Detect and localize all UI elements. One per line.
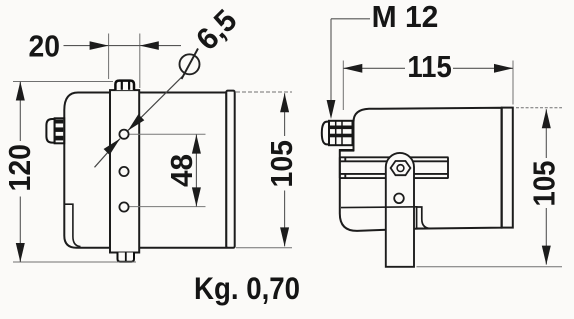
dimension 105 (right view) line	[545, 109, 547, 158]
lamp body (side view)	[340, 108, 502, 231]
cable gland (front view, left side)	[46, 118, 64, 143]
housing seam line	[341, 206, 418, 209]
dimension 115 line	[343, 67, 405, 69]
svg-text:48: 48	[164, 154, 199, 187]
dimension 120 extension lines	[13, 81, 113, 83]
svg-text:120: 120	[2, 144, 37, 192]
svg-text:20: 20	[29, 29, 61, 64]
dimension 115 extension lines	[342, 61, 344, 111]
svg-text:105: 105	[264, 140, 299, 188]
svg-text:Kg. 0,70: Kg. 0,70	[194, 270, 300, 306]
dimension 20 extension lines	[108, 34, 110, 80]
svg-text:115: 115	[407, 49, 451, 84]
diameter leader arrow upper	[128, 114, 144, 130]
hole extension line (bottom hole, 48 dim)	[130, 206, 206, 208]
dimension 105 (left view) line	[284, 93, 286, 136]
diameter symbol	[180, 54, 200, 74]
gland boss step	[339, 149, 354, 152]
mounting hole bottom	[119, 202, 128, 211]
dimension 105 (right view) extension lines	[516, 107, 562, 109]
dimension 48 line	[195, 134, 197, 206]
diameter leader line (upper segment)	[128, 76, 183, 130]
diameter leader line (lower segment)	[95, 139, 121, 168]
inner housing contour (bottom-left)	[64, 204, 80, 246]
svg-text:105: 105	[527, 161, 562, 207]
diameter leader arrow lower	[104, 139, 120, 155]
pivot center	[397, 165, 404, 172]
mounting hole top	[119, 130, 128, 139]
top screw head	[115, 81, 134, 91]
cable gland (side view)	[322, 121, 353, 145]
mounting hole middle	[119, 167, 128, 176]
dimension 120 line	[19, 82, 21, 142]
strap lower hole	[394, 194, 404, 204]
lamp body (front view)	[64, 93, 226, 248]
mounting strip (front view, vertical bracket)	[110, 90, 139, 252]
lens clip tab	[417, 207, 430, 228]
hole extension line (top hole, 48 dim)	[130, 133, 206, 135]
bracket strap with rounded pivot top (side view)	[386, 153, 414, 267]
lens rim (front view, right edge)	[226, 91, 234, 248]
dimension 20 line	[64, 45, 182, 47]
svg-text:M 12: M 12	[372, 0, 439, 34]
bottom nut	[118, 253, 135, 262]
bracket rail (side view horizontal arm)	[340, 157, 449, 178]
dimension 105 (left view) extension lines	[236, 91, 292, 93]
lens rim (side view)	[502, 108, 513, 228]
M 12 leader	[331, 18, 370, 20]
pivot hex nut	[391, 161, 411, 175]
